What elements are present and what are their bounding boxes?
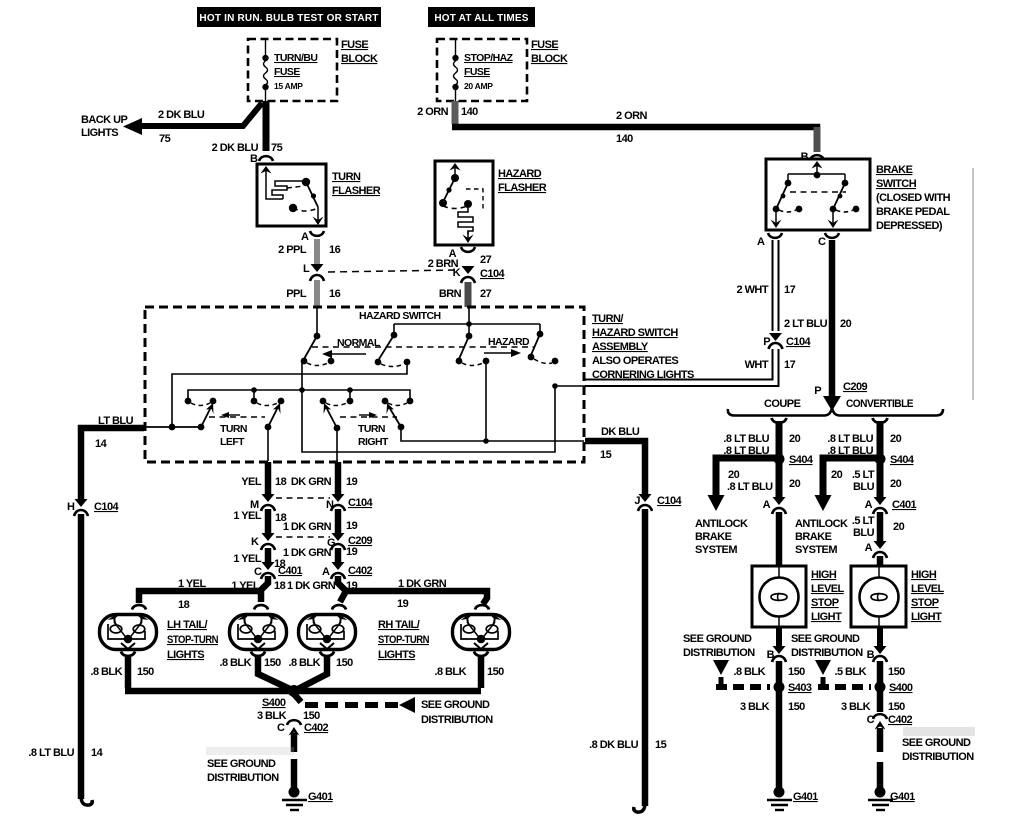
label 1 DK GRN 19 b — [283, 546, 358, 559]
svg-text:.8 LT BLU: .8 LT BLU — [28, 747, 74, 759]
svg-text:27: 27 — [480, 288, 492, 300]
svg-text:S403: S403 — [788, 682, 812, 694]
yel exit vertical — [267, 427, 269, 461]
label .8 BLK 150 lamp4 — [434, 666, 504, 678]
svg-text:.8 BLK: .8 BLK — [733, 666, 765, 678]
svg-text:150: 150 — [137, 666, 154, 678]
svg-text:RIGHT: RIGHT — [358, 436, 389, 448]
label 3 BLK 150 convertible — [841, 701, 905, 713]
lamp LH inner — [230, 605, 287, 656]
wire 1 YEL to lamps — [261, 576, 268, 602]
contact pair 3 — [320, 398, 354, 406]
normal right switch — [375, 324, 411, 367]
svg-text:G401: G401 — [793, 791, 818, 803]
svg-text:DISTRIBUTION: DISTRIBUTION — [421, 714, 493, 726]
svg-text:C401: C401 — [278, 565, 303, 577]
normal left switch — [301, 333, 335, 366]
wire 1 DK GRN 19 b — [335, 548, 342, 562]
svg-text:LIGHT: LIGHT — [811, 611, 842, 623]
svg-text:C104: C104 — [786, 336, 812, 348]
label BACK UP LIGHTS — [81, 114, 127, 139]
wire convertible to A — [877, 462, 884, 497]
wire .8 DK BLU down — [642, 509, 649, 806]
svg-text:.8 BLK: .8 BLK — [288, 657, 320, 669]
label 2 DK BLU 75 (flasher feed) — [212, 142, 283, 154]
svg-text:15: 15 — [655, 739, 667, 751]
svg-text:18: 18 — [178, 599, 190, 611]
label .5 LT BLU 20 second — [852, 515, 905, 539]
svg-text:C: C — [818, 236, 826, 248]
svg-text:P: P — [814, 385, 821, 397]
svg-text:2 WHT: 2 WHT — [737, 284, 769, 296]
hazard left switch — [456, 333, 490, 366]
svg-text:BRAKE: BRAKE — [795, 531, 832, 543]
label .8 LT BLU 14 — [28, 747, 103, 759]
dashed link K G — [276, 536, 330, 538]
svg-text:20 AMP: 20 AMP — [464, 81, 493, 91]
label 1 YEL 18 — [233, 510, 286, 524]
svg-text:BRAKE: BRAKE — [695, 531, 732, 543]
label TURN LEFT with arrow — [220, 412, 247, 448]
label FUSE BLOCK 1 — [341, 39, 378, 65]
svg-text:20: 20 — [890, 478, 902, 490]
svg-text:DK GRN: DK GRN — [291, 476, 332, 488]
svg-text:20: 20 — [789, 478, 801, 490]
svg-text:SEE GROUND: SEE GROUND — [683, 633, 752, 645]
wire 1 YEL 18 b — [265, 548, 272, 562]
svg-text:ANTILOCK: ANTILOCK — [795, 518, 848, 530]
gang link turn left — [209, 416, 265, 418]
contact pair 2 — [251, 398, 285, 406]
svg-text:.8 DK BLU: .8 DK BLU — [589, 739, 638, 751]
svg-text:BRAKE PEDAL: BRAKE PEDAL — [876, 206, 950, 218]
label 2 ORN 140 (left) — [417, 106, 478, 118]
svg-text:.8 LT BLU: .8 LT BLU — [827, 433, 873, 445]
wire coupe to stop light — [776, 512, 783, 566]
svg-text:20: 20 — [789, 433, 801, 445]
see ground distribution coupe — [683, 633, 770, 687]
dashed link L to K — [328, 270, 456, 272]
label DK GRN 19 — [291, 476, 358, 488]
svg-text:140: 140 — [616, 133, 633, 145]
svg-text:19: 19 — [346, 520, 358, 532]
svg-text:HIGH: HIGH — [811, 569, 837, 581]
svg-text:C104: C104 — [94, 501, 120, 513]
fuse TURN/BU 15 AMP — [262, 40, 317, 101]
wire 2 PPL — [314, 239, 320, 264]
svg-text:A: A — [865, 542, 873, 554]
splice S400 (tail lights) — [262, 685, 300, 709]
svg-text:A: A — [763, 499, 771, 511]
svg-text:3 BLK: 3 BLK — [740, 701, 770, 713]
svg-text:ASSEMBLY: ASSEMBLY — [592, 341, 649, 353]
svg-text:DK BLU: DK BLU — [601, 426, 640, 438]
LT BLU inside line — [146, 426, 201, 428]
wire 2 ORN fuse2 down — [452, 101, 459, 124]
connector B convertible — [867, 646, 887, 662]
connector A C402 — [322, 562, 373, 579]
svg-text:LEFT: LEFT — [220, 436, 245, 448]
svg-text:G401: G401 — [308, 791, 333, 803]
svg-text:SEE GROUND: SEE GROUND — [902, 737, 971, 749]
label TURN FLASHER — [332, 171, 381, 197]
blade 2 yel — [265, 403, 281, 430]
splice S404 coupe — [774, 454, 814, 467]
svg-text:17: 17 — [784, 359, 796, 371]
svg-text:27: 27 — [480, 254, 492, 266]
svg-text:DISTRIBUTION: DISTRIBUTION — [683, 647, 755, 659]
svg-text:ANTILOCK: ANTILOCK — [695, 518, 748, 530]
wire ORN down to brake switch B — [814, 127, 821, 152]
turn left blade — [201, 403, 214, 427]
svg-text:BRAKE: BRAKE — [876, 164, 913, 176]
svg-text:LIGHTS: LIGHTS — [167, 649, 204, 661]
label 1 YEL 18 (left run) — [178, 578, 206, 611]
wire 2 LT BLU brake to C209 — [829, 240, 836, 396]
svg-text:SYSTEM: SYSTEM — [795, 544, 837, 556]
svg-text:.8 LT BLU: .8 LT BLU — [723, 433, 769, 445]
ground G401 coupe — [767, 787, 818, 811]
wire 2 WHT double line — [773, 240, 779, 331]
svg-text:16: 16 — [329, 288, 341, 300]
svg-text:1 DK GRN: 1 DK GRN — [287, 580, 336, 592]
label HAZARD with arrow — [484, 336, 530, 357]
turn flasher box — [257, 164, 326, 226]
see ground distribution convertible — [791, 633, 871, 687]
label PPL 16 — [286, 288, 340, 300]
brace coupe/convertible — [728, 407, 943, 416]
label BRAKE SWITCH — [876, 164, 951, 232]
turn left contact pair — [185, 398, 217, 406]
svg-text:19: 19 — [397, 598, 409, 610]
wire DK BLU 15 from hazard assembly — [585, 441, 645, 494]
svg-text:15: 15 — [600, 449, 612, 461]
lamp RH outer — [453, 605, 510, 656]
svg-text:L: L — [303, 263, 310, 275]
svg-text:1 YEL: 1 YEL — [233, 553, 261, 565]
svg-text:J: J — [634, 495, 640, 507]
hazard right switch — [528, 324, 559, 364]
lamp LH outer (tail/stop-turn) — [100, 605, 157, 656]
svg-text:3 BLK: 3 BLK — [841, 701, 871, 713]
dashed link M N — [276, 497, 330, 499]
convertible feed cup — [873, 418, 888, 423]
splice S403 — [774, 682, 812, 695]
lamp RH inner — [299, 605, 356, 656]
label .8 BLK 150 lamp2 — [219, 657, 281, 669]
hook end dk blu — [634, 803, 645, 812]
connector A C401 — [865, 497, 917, 514]
svg-text:75: 75 — [159, 133, 171, 145]
svg-text:1 DK GRN: 1 DK GRN — [283, 547, 332, 559]
label YEL 18 — [241, 476, 286, 488]
svg-text:150: 150 — [788, 666, 805, 678]
svg-text:FUSE: FUSE — [464, 66, 490, 78]
svg-text:140: 140 — [461, 106, 478, 118]
svg-text:150: 150 — [336, 657, 353, 669]
wire S403 to ground — [776, 691, 783, 788]
svg-text:DISTRIBUTION: DISTRIBUTION — [207, 772, 279, 784]
svg-text:BLU: BLU — [853, 527, 875, 539]
wht line inside — [555, 385, 585, 387]
svg-text:18: 18 — [274, 580, 286, 592]
label BRN 27 — [439, 288, 492, 300]
svg-text:B: B — [801, 151, 809, 163]
svg-text:HAZARD SWITCH: HAZARD SWITCH — [592, 327, 678, 339]
label 3 BLK 150 coupe — [740, 701, 805, 713]
svg-text:C402: C402 — [348, 565, 373, 577]
wire below stop light convertible — [877, 627, 883, 646]
label TURN RIGHT with arrow — [358, 412, 389, 448]
connector K C104 — [453, 266, 506, 283]
hook end left wire — [81, 796, 92, 805]
svg-text:18: 18 — [275, 476, 287, 488]
svg-text:BRN: BRN — [439, 288, 462, 300]
turn right contact pair — [382, 398, 414, 406]
svg-text:ALSO OPERATES: ALSO OPERATES — [592, 355, 678, 367]
svg-text:2 PPL: 2 PPL — [278, 244, 307, 256]
svg-text:TURN: TURN — [220, 423, 247, 435]
header HOT IN RUN BULB TEST OR START — [197, 7, 381, 27]
svg-text:1 DK GRN: 1 DK GRN — [283, 521, 332, 533]
svg-text:BLOCK: BLOCK — [531, 53, 568, 65]
svg-text:LEVEL: LEVEL — [911, 583, 945, 595]
wire below stop light coupe — [776, 627, 782, 646]
label 1 DK GRN 19 c — [287, 580, 358, 592]
svg-text:A: A — [322, 566, 330, 578]
svg-text:STOP/HAZ: STOP/HAZ — [464, 52, 514, 64]
terminal A hazard flasher — [449, 247, 475, 260]
svg-text:.8 BLK: .8 BLK — [219, 657, 251, 669]
label 2 WHT 17 — [737, 284, 796, 296]
label SEE GROUND DISTRIBUTION right — [902, 727, 975, 763]
label 2 LT BLU 20 — [784, 318, 852, 330]
svg-text:TURN: TURN — [358, 423, 385, 435]
svg-text:G401: G401 — [890, 791, 915, 803]
connector G C209 — [327, 533, 373, 550]
feed line y374 — [172, 362, 407, 427]
high level stop light coupe — [752, 566, 806, 627]
svg-text:2 DK BLU: 2 DK BLU — [158, 109, 205, 121]
label .5 LT BLU convertible — [852, 469, 902, 493]
fuse STOP/HAZ 20 AMP — [452, 40, 513, 101]
wire to stop light convertible — [877, 556, 884, 566]
svg-text:BACK UP: BACK UP — [81, 114, 127, 126]
svg-text:S400: S400 — [262, 697, 286, 709]
svg-text:A: A — [301, 231, 309, 243]
ground bus wires .8 BLK — [125, 656, 481, 691]
turn right to dk blu line — [401, 427, 584, 441]
svg-text:A: A — [757, 236, 765, 248]
svg-text:C209: C209 — [843, 381, 868, 393]
svg-text:20: 20 — [728, 469, 740, 481]
svg-text:S404: S404 — [890, 454, 915, 466]
svg-text:HOT AT ALL TIMES: HOT AT ALL TIMES — [434, 13, 528, 24]
svg-text:TURN: TURN — [332, 171, 361, 183]
bus line y390 — [188, 390, 410, 399]
svg-text:20: 20 — [831, 469, 843, 481]
svg-text:STOP: STOP — [811, 597, 839, 609]
svg-text:LH TAIL/: LH TAIL/ — [167, 619, 207, 631]
svg-text:SEE GROUND: SEE GROUND — [791, 633, 860, 645]
svg-text:150: 150 — [888, 701, 905, 713]
label 2 PPL 16 — [278, 244, 340, 256]
wire 1 YEL 18 — [265, 509, 272, 533]
svg-text:BLU: BLU — [853, 481, 875, 493]
svg-text:2 LT BLU: 2 LT BLU — [784, 318, 828, 330]
wire S400 down — [877, 691, 884, 712]
wire coupe .8 LT BLU — [776, 421, 783, 455]
label .8 LT BLU x2 coupe — [723, 433, 800, 457]
hazard switch assembly dashed box — [145, 307, 584, 462]
wire convertible .8 LT BLU — [877, 421, 884, 455]
svg-text:150: 150 — [264, 657, 281, 669]
svg-text:20: 20 — [890, 433, 902, 445]
terminal B brake switch — [801, 151, 824, 163]
svg-text:19: 19 — [346, 546, 358, 558]
label HIGH LEVEL STOP LIGHT coupe — [811, 569, 845, 623]
wire to second A — [877, 512, 884, 541]
connector M C104 — [250, 494, 275, 511]
svg-text:LT BLU: LT BLU — [98, 415, 134, 427]
svg-text:DISTRIBUTION: DISTRIBUTION — [902, 751, 974, 763]
terminal C brake switch — [818, 233, 839, 248]
svg-text:FUSE: FUSE — [341, 39, 368, 51]
svg-text:WHT: WHT — [745, 359, 769, 371]
svg-text:C104: C104 — [657, 495, 683, 507]
label 1 DK GRN 19 — [283, 520, 358, 533]
svg-text:LEVEL: LEVEL — [811, 583, 845, 595]
wire B to S403 — [776, 661, 783, 684]
svg-text:150: 150 — [788, 701, 805, 713]
splice S400 convertible — [875, 682, 913, 695]
svg-text:16: 16 — [329, 244, 341, 256]
center vertical to wht line — [302, 362, 555, 452]
svg-text:HIGH: HIGH — [911, 569, 937, 581]
connector P C104 — [763, 333, 811, 349]
faint page line — [972, 168, 974, 400]
wire B to S400 — [877, 661, 884, 684]
svg-text:SEE GROUND: SEE GROUND — [207, 758, 276, 770]
svg-text:150: 150 — [888, 666, 905, 678]
svg-text:17: 17 — [784, 284, 796, 296]
coupe feed cup — [772, 418, 787, 423]
wire 1 DK GRN horizontal to lamp4 — [343, 591, 487, 604]
svg-text:RH TAIL/: RH TAIL/ — [378, 619, 420, 631]
dashed see ground distribution branch — [294, 694, 493, 726]
label TURN/HAZARD SWITCH ASSEMBLY — [592, 313, 694, 381]
label 1 YEL 18 b — [233, 553, 285, 570]
svg-text:STOP-TURN: STOP-TURN — [378, 634, 430, 646]
svg-text:C401: C401 — [892, 499, 917, 511]
svg-text:COUPE: COUPE — [764, 398, 801, 410]
hazard left contact drop — [485, 361, 487, 441]
label HAZARD FLASHER — [498, 168, 547, 194]
svg-text:TURN/: TURN/ — [592, 313, 623, 325]
connector B coupe — [767, 646, 786, 662]
svg-text:DISTRIBUTION: DISTRIBUTION — [791, 647, 863, 659]
blade 3 dk grn — [324, 403, 341, 431]
svg-text:2 ORN: 2 ORN — [616, 110, 647, 122]
wire coupe to A — [776, 462, 783, 497]
brake switch internals — [771, 161, 860, 228]
brake switch box — [766, 159, 870, 230]
svg-text:CONVERTIBLE: CONVERTIBLE — [846, 398, 913, 410]
svg-text:C402: C402 — [888, 714, 913, 726]
label DK BLU 15 — [600, 426, 640, 461]
label 1 YEL 18 c — [231, 580, 285, 592]
label WHT 17 — [745, 359, 796, 371]
svg-text:FLASHER: FLASHER — [332, 185, 381, 197]
terminal A brake switch — [757, 233, 782, 248]
svg-text:H: H — [67, 501, 75, 513]
svg-text:.5 BLK: .5 BLK — [834, 666, 866, 678]
svg-text:HAZARD: HAZARD — [498, 168, 542, 180]
gang link turn right — [340, 416, 397, 418]
wire .8 LT BLU 14 down — [78, 514, 85, 799]
coupe ABS branch — [708, 458, 780, 511]
fuse block 2 dashed box — [437, 39, 527, 101]
svg-text:.5 LT: .5 LT — [852, 515, 875, 527]
turn right blade — [387, 403, 405, 430]
label .8 LT BLU x2 convertible — [827, 433, 901, 457]
svg-text:LIGHTS: LIGHTS — [81, 127, 118, 139]
label .8 BLK 150 lamp1 — [90, 666, 154, 678]
label 2 BRN 27 — [428, 254, 492, 270]
svg-text:DEPRESSED): DEPRESSED) — [876, 220, 943, 232]
wire 1 DK GRN 19 — [335, 509, 342, 533]
connector C C402 convertible — [867, 714, 913, 730]
wire DK GRN 19 — [335, 462, 342, 494]
svg-text:FUSE: FUSE — [531, 39, 558, 51]
svg-text:FUSE: FUSE — [274, 66, 300, 78]
label NORMAL with arrow — [322, 337, 381, 358]
svg-text:BLOCK: BLOCK — [341, 53, 378, 65]
svg-text:K: K — [453, 267, 461, 279]
connector N C104 — [326, 494, 374, 511]
svg-text:FLASHER: FLASHER — [498, 182, 547, 194]
connector A convertible 2 — [865, 541, 887, 558]
svg-text:1 YEL: 1 YEL — [233, 510, 261, 522]
svg-text:15 AMP: 15 AMP — [274, 81, 303, 91]
svg-text:PPL: PPL — [286, 288, 307, 300]
svg-text:.5 LT: .5 LT — [852, 469, 875, 481]
connector P C209 — [814, 381, 867, 397]
svg-text:C104: C104 — [348, 497, 374, 509]
label .8 BLK 150 lamp3 — [288, 657, 353, 669]
svg-text:C104: C104 — [480, 268, 506, 280]
svg-text:K: K — [251, 536, 259, 548]
vertical drops to contacts — [253, 390, 255, 398]
svg-text:HAZARD: HAZARD — [488, 336, 530, 348]
wire 2 DK BLU to back up lights — [123, 103, 262, 135]
svg-text:A: A — [865, 499, 873, 511]
svg-text:C402: C402 — [304, 722, 329, 734]
label FUSE BLOCK 2 — [531, 39, 568, 65]
svg-text:YEL: YEL — [241, 476, 262, 488]
label 2 ORN 140 (mid) — [616, 110, 647, 145]
svg-text:S404: S404 — [789, 454, 814, 466]
connector J C104 — [634, 494, 682, 511]
gang link dashed normal-hazard — [312, 346, 534, 348]
ground G401 (tail) — [282, 787, 333, 811]
connector H C104 — [67, 499, 120, 516]
label .5 BLK 150 convertible — [834, 666, 905, 678]
connector A coupe — [763, 497, 786, 514]
wire 1 DK GRN to lamps — [338, 576, 346, 602]
svg-text:.8 BLK: .8 BLK — [434, 666, 466, 678]
svg-text:SWITCH: SWITCH — [876, 178, 917, 190]
